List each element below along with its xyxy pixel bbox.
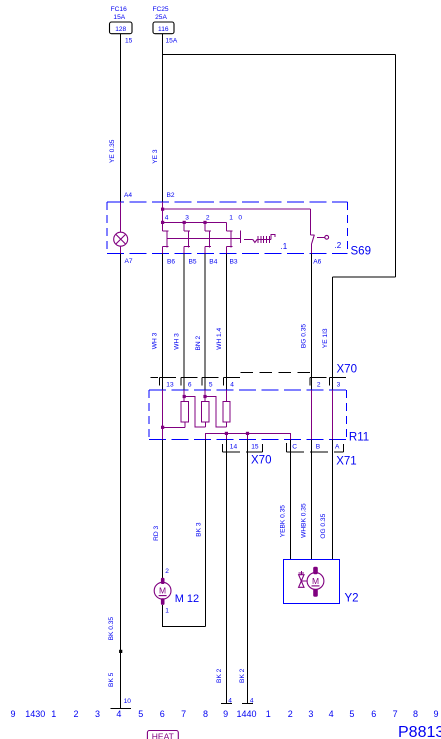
contact position 4 xyxy=(162,222,164,231)
svg-text:14: 14 xyxy=(230,443,238,450)
wire lamp feed inside S69 xyxy=(120,202,122,233)
svg-text:B6: B6 xyxy=(167,259,175,266)
resistor block R11 dashed box xyxy=(149,389,347,391)
junction R1 top xyxy=(183,395,186,398)
svg-text:A7: A7 xyxy=(125,258,133,265)
resistor R2 xyxy=(202,402,209,422)
svg-text:P8813: P8813 xyxy=(398,724,441,739)
wire B4 to X70 pin 5 xyxy=(204,253,206,390)
svg-text:8: 8 xyxy=(203,709,208,719)
wire branch right vertical xyxy=(395,54,397,277)
resistor R3 xyxy=(223,402,230,422)
svg-text:3: 3 xyxy=(185,215,189,222)
svg-text:15: 15 xyxy=(125,38,133,45)
X70 pin 6 xyxy=(181,376,198,378)
wire M12 pin1 return to BK 3 xyxy=(163,605,206,627)
svg-text:128: 128 xyxy=(115,26,126,33)
X71 pin A xyxy=(334,451,344,453)
wire B2 feed inside S69 xyxy=(162,202,164,231)
svg-text:10: 10 xyxy=(124,698,132,705)
X70 pin 5 xyxy=(202,376,219,378)
svg-text:6: 6 xyxy=(188,381,192,388)
X70 pin 2 xyxy=(310,376,327,378)
svg-text:BK 3: BK 3 xyxy=(195,522,202,537)
svg-text:1: 1 xyxy=(229,215,233,222)
svg-text:116: 116 xyxy=(158,26,169,33)
svg-text:4: 4 xyxy=(329,709,334,719)
wire BK 3 from rail xyxy=(205,440,207,627)
svg-text:7: 7 xyxy=(181,709,186,719)
X71 pin C xyxy=(286,443,288,452)
X70 pin 15 xyxy=(246,451,263,453)
wire BK 0.35 / BK 5 lamp return xyxy=(120,253,122,708)
Y2 motor symbol xyxy=(313,567,318,574)
svg-text:4: 4 xyxy=(116,709,121,719)
svg-text:.1: .1 xyxy=(281,242,288,251)
svg-text:6: 6 xyxy=(160,709,165,719)
wire branch down to X70 pin 3 xyxy=(332,277,334,390)
wire branch horizontal to right xyxy=(163,53,396,55)
svg-text:2: 2 xyxy=(206,215,210,222)
wire pin4 feed inside R11 xyxy=(226,390,228,401)
svg-text:0: 0 xyxy=(238,215,242,222)
switch fixed contact circle xyxy=(317,236,325,238)
wire rail to pin 15 xyxy=(247,433,249,439)
junction R2 top xyxy=(203,395,206,398)
svg-text:WHBK 0.35: WHBK 0.35 xyxy=(300,503,307,538)
indicator lamp in S69 xyxy=(114,232,128,246)
R11 output rail xyxy=(206,433,291,439)
wire X71 A to Y2 xyxy=(332,440,334,560)
HEAT function box xyxy=(147,731,178,739)
switch blade .2 xyxy=(312,235,315,244)
svg-text:A: A xyxy=(335,443,340,450)
svg-text:15A: 15A xyxy=(113,14,125,21)
resistor R1 xyxy=(181,402,188,422)
contact position 2 xyxy=(204,222,206,231)
svg-text:WH 3: WH 3 xyxy=(173,333,180,350)
svg-text:FC25: FC25 xyxy=(152,6,168,13)
svg-text:2: 2 xyxy=(73,709,78,719)
svg-text:9: 9 xyxy=(10,709,15,719)
wire B5 to X70 pin 6 xyxy=(183,253,185,390)
junction contact bus pin 3 xyxy=(183,221,186,224)
svg-text:8: 8 xyxy=(413,709,418,719)
wire X71 B to Y2 xyxy=(311,440,313,560)
wire A6 to X70 pin 2 xyxy=(311,253,313,390)
junction contact bus pin 4 xyxy=(161,221,164,224)
svg-text:BG 0.35: BG 0.35 xyxy=(301,324,308,349)
svg-text:5: 5 xyxy=(138,709,143,719)
svg-text:HEAT: HEAT xyxy=(152,732,174,739)
svg-text:3: 3 xyxy=(308,709,313,719)
svg-text:B3: B3 xyxy=(230,259,238,266)
svg-text:BK 2: BK 2 xyxy=(239,668,246,683)
heater element .1 xyxy=(244,238,253,240)
svg-text:4: 4 xyxy=(165,215,169,222)
svg-text:B: B xyxy=(316,443,321,450)
fuse FC25 box 116 xyxy=(153,22,174,34)
R11 left rail to R1 bottom xyxy=(163,426,185,428)
off position electrode 0 xyxy=(240,231,242,244)
junction contact bus pin 2 xyxy=(203,221,206,224)
X70 pin 4 xyxy=(223,376,240,378)
X71 pin B xyxy=(310,451,328,453)
wiper link line xyxy=(167,238,241,240)
svg-text:9: 9 xyxy=(433,709,438,719)
svg-text:9: 9 xyxy=(223,709,228,719)
wire branch step left xyxy=(333,276,396,278)
wire RD 3 to M12 pin 2 xyxy=(162,440,164,579)
svg-text:BK 0.35: BK 0.35 xyxy=(108,617,115,641)
svg-text:X70: X70 xyxy=(251,455,271,467)
svg-text:M: M xyxy=(312,576,319,586)
contact position 1 xyxy=(226,222,228,231)
svg-text:BN 2: BN 2 xyxy=(195,336,202,351)
junction R11 left rail xyxy=(161,426,164,429)
svg-text:Y2: Y2 xyxy=(345,593,359,605)
wire W2 fuse FC25 to S69 pin B2 xyxy=(162,34,164,202)
wire B6 to X70 pin 13 xyxy=(162,253,164,390)
svg-text:A6: A6 xyxy=(313,259,321,266)
bypass pin6 to R2 bottom xyxy=(184,397,205,427)
svg-text:B5: B5 xyxy=(189,259,197,266)
svg-text:3: 3 xyxy=(337,381,341,388)
svg-text:2: 2 xyxy=(288,709,293,719)
bypass pin5 to R3 bottom xyxy=(205,397,226,427)
svg-text:15A: 15A xyxy=(166,38,178,45)
svg-text:BK 5: BK 5 xyxy=(108,672,115,687)
ground terminal tick BK2 left xyxy=(221,703,232,705)
switch contact .2 feed xyxy=(309,209,311,235)
svg-text:YE 0.35: YE 0.35 xyxy=(109,139,116,163)
svg-text:15: 15 xyxy=(251,443,259,450)
svg-text:A4: A4 xyxy=(124,192,132,199)
fuse FC16 box 128 xyxy=(110,22,133,34)
svg-text:WH 3: WH 3 xyxy=(151,332,158,349)
Y2 valve icon xyxy=(300,571,302,575)
svg-text:YEBK 0.35: YEBK 0.35 xyxy=(279,505,286,538)
svg-text:WH 1.4: WH 1.4 xyxy=(216,327,223,349)
svg-text:B4: B4 xyxy=(209,259,217,266)
wire pin 14 to ground connector BK 2 xyxy=(225,440,227,704)
ground terminal tick BK2 right xyxy=(242,703,253,705)
svg-text:1430: 1430 xyxy=(25,709,45,719)
svg-text:2: 2 xyxy=(317,381,321,388)
svg-text:13: 13 xyxy=(166,381,174,388)
S69 contact bus xyxy=(163,221,227,223)
wire pin 15 to ground connector BK 2 xyxy=(247,440,249,704)
wire W1 fuse FC16 to S69 pin A4 xyxy=(120,34,122,202)
wire pin3 pass-through inside R11 xyxy=(332,390,334,439)
svg-text:BK 2: BK 2 xyxy=(216,668,223,683)
wire B3 to X70 pin 4 xyxy=(226,253,228,390)
svg-text:4: 4 xyxy=(250,697,254,704)
svg-text:5: 5 xyxy=(349,709,354,719)
svg-text:RD 3: RD 3 xyxy=(153,526,160,541)
junction rail pin 14 xyxy=(225,432,228,435)
splice on lamp return xyxy=(119,650,122,653)
svg-text:1440: 1440 xyxy=(236,709,256,719)
svg-text:X71: X71 xyxy=(336,456,356,468)
svg-text:1: 1 xyxy=(266,709,271,719)
ground terminal tick W1 xyxy=(111,707,131,709)
X70 pin 3 xyxy=(330,376,347,378)
connector X70 dashed line xyxy=(241,372,312,374)
svg-text:3: 3 xyxy=(95,709,100,719)
wire lamp to A7 inside S69 xyxy=(120,246,122,253)
junction rail pin 15 xyxy=(246,432,249,435)
wire pin6 feed inside R11 xyxy=(183,390,185,401)
svg-text:1: 1 xyxy=(51,709,56,719)
svg-text:6: 6 xyxy=(371,709,376,719)
svg-text:B2: B2 xyxy=(167,192,175,199)
svg-text:C: C xyxy=(292,443,297,450)
X70 pin 14 xyxy=(221,444,223,452)
svg-text:2: 2 xyxy=(165,568,169,575)
svg-text:M 12: M 12 xyxy=(175,593,199,605)
svg-text:4: 4 xyxy=(230,381,234,388)
svg-text:YE 1I3: YE 1I3 xyxy=(322,328,329,348)
wire pin13 feed inside R11 xyxy=(162,390,164,439)
actuator Y2 box xyxy=(284,560,340,604)
svg-text:FC16: FC16 xyxy=(111,6,127,13)
svg-text:.2: .2 xyxy=(335,241,342,250)
svg-text:R11: R11 xyxy=(349,432,369,444)
svg-text:7: 7 xyxy=(393,709,398,719)
svg-text:YE 3: YE 3 xyxy=(152,149,159,164)
S69 top bus xyxy=(163,208,311,210)
wire rail to pin 14 xyxy=(225,433,227,439)
wire X71 C to Y2 xyxy=(290,440,292,560)
wire pin2 pass-through inside R11 xyxy=(311,390,313,439)
contact position 3 xyxy=(183,222,185,231)
svg-text:4: 4 xyxy=(228,697,232,704)
junction top bus xyxy=(161,208,164,211)
svg-text:25A: 25A xyxy=(155,14,167,21)
svg-text:M: M xyxy=(159,586,166,596)
svg-text:OG 0.35: OG 0.35 xyxy=(320,513,327,538)
switch block S69 dashed box xyxy=(107,201,348,203)
svg-text:S69: S69 xyxy=(351,246,371,258)
X70 pin 13 xyxy=(159,376,176,378)
wire pin5 feed inside R11 xyxy=(204,390,206,401)
svg-text:X70: X70 xyxy=(337,364,357,376)
svg-text:1: 1 xyxy=(165,608,169,615)
svg-text:5: 5 xyxy=(209,381,213,388)
